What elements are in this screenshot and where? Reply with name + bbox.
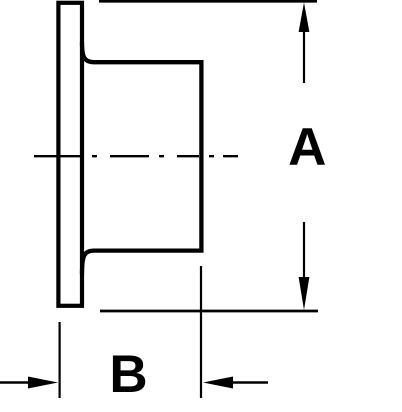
dimension A top extension line	[99, 0, 317, 3]
centerline	[34, 155, 238, 157]
svg-text:A: A	[288, 118, 326, 177]
body outline	[82, 42, 201, 274]
dimension B left extension line	[58, 322, 60, 398]
flange outline	[58, 3, 82, 306]
svg-text:B: B	[109, 345, 147, 404]
dimension B right arrow	[203, 377, 268, 389]
dimension B right extension line	[200, 266, 202, 398]
dimension A up arrow	[299, 3, 310, 84]
dimension A down arrow	[299, 222, 310, 310]
dimension A bottom extension line	[100, 310, 318, 313]
dimension B left arrow	[0, 377, 58, 389]
